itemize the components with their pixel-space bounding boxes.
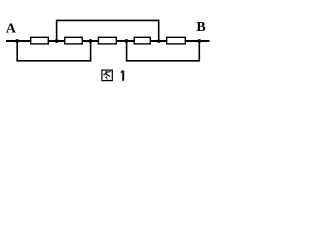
- svg-text:A: A: [6, 21, 17, 36]
- svg-text:B: B: [196, 20, 205, 35]
